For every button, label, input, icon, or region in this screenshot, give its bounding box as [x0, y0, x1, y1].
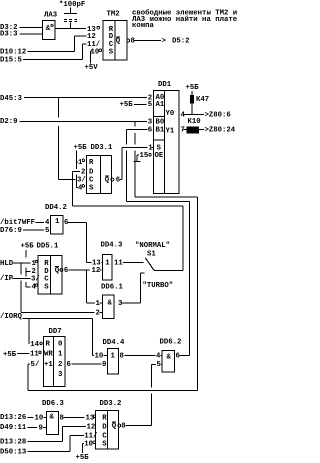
svg-text:9: 9 — [39, 425, 43, 433]
svg-text:11: 11 — [114, 260, 123, 268]
svg-text:>Z80:24: >Z80:24 — [205, 127, 236, 135]
svg-text:3: 3 — [148, 118, 153, 126]
svg-text:S: S — [44, 284, 49, 292]
svg-text:+1: +1 — [44, 361, 53, 369]
svg-text:10: 10 — [91, 49, 100, 57]
svg-text:D50:13: D50:13 — [0, 449, 27, 457]
svg-text:D49:11: D49:11 — [0, 424, 27, 432]
svg-text:0: 0 — [58, 341, 62, 349]
svg-text:6: 6 — [67, 361, 71, 369]
svg-text:6: 6 — [148, 127, 152, 135]
svg-text:"NORMAL": "NORMAL" — [135, 242, 170, 250]
svg-text:DD6.2: DD6.2 — [160, 338, 182, 346]
svg-text:OE: OE — [155, 152, 164, 160]
svg-text:+5Б: +5Б — [120, 101, 134, 109]
svg-text:C: C — [102, 433, 107, 441]
svg-text:"TURBO": "TURBO" — [143, 282, 174, 290]
svg-text:DD6.3: DD6.3 — [42, 400, 65, 408]
svg-text:DD4.2: DD4.2 — [45, 204, 67, 212]
svg-text:S: S — [89, 185, 94, 193]
svg-text:8: 8 — [60, 415, 64, 423]
svg-text:>Z80:6: >Z80:6 — [205, 112, 231, 120]
svg-text:5: 5 — [157, 361, 161, 369]
svg-text:/IORQ: /IORQ — [0, 313, 23, 321]
svg-text:Q: Q — [55, 267, 60, 275]
svg-text:R: R — [46, 341, 51, 349]
svg-text:D5:2: D5:2 — [172, 38, 190, 46]
svg-text:3: 3 — [58, 371, 63, 379]
svg-text:11/: 11/ — [84, 433, 98, 441]
svg-text:DD1: DD1 — [158, 81, 172, 89]
svg-text:D10:12: D10:12 — [0, 49, 26, 57]
svg-text:5: 5 — [148, 101, 152, 109]
svg-text:6: 6 — [64, 267, 68, 275]
svg-text:R: R — [89, 159, 94, 167]
svg-text:Y0: Y0 — [166, 110, 175, 118]
svg-text:6: 6 — [116, 177, 120, 185]
svg-text:1: 1 — [96, 300, 101, 308]
svg-text:D2:9: D2:9 — [0, 118, 18, 126]
svg-text:5: 5 — [45, 227, 49, 235]
svg-text:*100pF: *100pF — [59, 1, 85, 9]
svg-text:4: 4 — [78, 185, 83, 193]
svg-text:C: C — [89, 177, 94, 185]
svg-text:DD3.1: DD3.1 — [91, 144, 114, 152]
svg-text:B1: B1 — [156, 126, 165, 134]
svg-text:11: 11 — [30, 351, 39, 359]
svg-text:1: 1 — [111, 353, 116, 361]
svg-text:Q: Q — [112, 423, 117, 431]
svg-text:6: 6 — [64, 219, 68, 227]
svg-text:DD4.4: DD4.4 — [103, 339, 126, 347]
svg-text:8: 8 — [131, 38, 135, 46]
svg-text:Y1: Y1 — [166, 127, 175, 135]
svg-text:+5Б: +5Б — [3, 351, 17, 359]
svg-text:2: 2 — [58, 361, 62, 369]
svg-text:10: 10 — [84, 441, 93, 449]
svg-text:D76:9: D76:9 — [0, 227, 22, 235]
svg-text:DD3.2: DD3.2 — [100, 400, 122, 408]
svg-text:B0: B0 — [156, 118, 165, 126]
svg-text:Q: Q — [105, 177, 110, 185]
svg-text:+5V: +5V — [85, 64, 99, 72]
svg-text:WR: WR — [44, 351, 53, 359]
svg-text:&: & — [108, 299, 113, 307]
svg-text:1: 1 — [32, 260, 37, 268]
svg-text:&: & — [50, 414, 55, 422]
svg-text:13: 13 — [86, 415, 95, 423]
svg-text:1: 1 — [78, 159, 83, 167]
svg-text:DD6.1: DD6.1 — [101, 283, 124, 291]
svg-text:/IP: /IP — [0, 275, 14, 283]
svg-text:1: 1 — [55, 218, 60, 226]
svg-text:4: 4 — [45, 219, 50, 227]
svg-text:DD4.3: DD4.3 — [101, 241, 124, 249]
svg-text:8: 8 — [120, 353, 124, 361]
svg-text:1: 1 — [148, 144, 153, 152]
svg-text:10: 10 — [95, 353, 104, 361]
svg-text:9: 9 — [102, 361, 106, 369]
svg-text:15: 15 — [140, 152, 149, 160]
svg-text:/: / — [35, 361, 40, 369]
svg-text:DD5.1: DD5.1 — [37, 242, 60, 250]
svg-text:3/: 3/ — [31, 276, 40, 284]
svg-text:/bit7WFF: /bit7WFF — [0, 219, 35, 227]
svg-text:D3:3: D3:3 — [0, 31, 18, 39]
svg-text:ТМ2: ТМ2 — [107, 10, 120, 18]
svg-text:7: 7 — [181, 127, 185, 135]
svg-text:К10: К10 — [188, 118, 201, 126]
svg-text:4: 4 — [32, 284, 37, 292]
svg-text:D: D — [102, 423, 107, 431]
svg-text:12: 12 — [87, 33, 96, 41]
svg-text:1: 1 — [105, 260, 110, 268]
svg-text:S: S — [109, 49, 114, 57]
svg-text:К47: К47 — [196, 96, 209, 104]
svg-text:2: 2 — [96, 310, 100, 318]
svg-text:&: & — [46, 25, 51, 33]
svg-text:+5Б: +5Б — [186, 84, 200, 92]
svg-text:S1: S1 — [147, 251, 156, 259]
svg-text:14: 14 — [30, 341, 39, 349]
svg-text:8: 8 — [121, 423, 125, 431]
svg-text:D: D — [109, 33, 114, 41]
svg-text:D13:26: D13:26 — [0, 414, 26, 422]
svg-text:ЛА3: ЛА3 — [44, 11, 58, 19]
svg-text:4: 4 — [181, 112, 186, 120]
svg-text:10: 10 — [35, 415, 44, 423]
svg-text:R: R — [102, 415, 107, 423]
svg-text:+5Б: +5Б — [74, 144, 88, 152]
svg-text:R: R — [44, 260, 49, 268]
svg-text:4: 4 — [156, 353, 161, 361]
svg-text:+5Б: +5Б — [76, 454, 90, 462]
svg-text:Q: Q — [116, 38, 121, 46]
svg-text:3/: 3/ — [77, 177, 86, 185]
svg-text:A1: A1 — [156, 101, 165, 109]
svg-text:1: 1 — [58, 351, 63, 359]
svg-text:S: S — [102, 441, 107, 449]
svg-text:12: 12 — [87, 424, 96, 432]
svg-text:DD7: DD7 — [49, 328, 62, 336]
svg-text:D45:3: D45:3 — [0, 95, 23, 103]
svg-text:3: 3 — [118, 300, 123, 308]
svg-text:C: C — [44, 276, 49, 284]
svg-text:&: & — [167, 353, 172, 361]
svg-text:6: 6 — [176, 353, 180, 361]
svg-text:+5Б: +5Б — [21, 242, 35, 250]
svg-text:D: D — [89, 169, 94, 177]
svg-text:2: 2 — [81, 169, 85, 177]
svg-text:HLD: HLD — [0, 260, 14, 268]
svg-text:>: > — [162, 38, 167, 46]
svg-text:D15:5: D15:5 — [0, 57, 22, 65]
svg-text:12: 12 — [92, 267, 101, 275]
svg-text:D13:28: D13:28 — [0, 439, 26, 447]
svg-text:компа: компа — [132, 22, 155, 30]
